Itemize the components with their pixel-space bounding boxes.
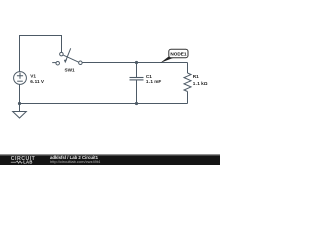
wire R1 bottom stub: [187, 92, 189, 104]
label V1 value: [30, 79, 45, 84]
wire switch common to right corner: [82, 62, 187, 64]
wire C1 bottom stub: [136, 80, 138, 104]
svg-text:C1: C1: [146, 74, 152, 79]
wire C1 top stub: [136, 63, 138, 78]
node flag NODE1 pointer: [160, 56, 173, 63]
footer title text: [50, 155, 99, 160]
svg-text:http://circuitlab.com/cwz49t4: http://circuitlab.com/cwz49t4: [50, 159, 101, 164]
label R1 value: [193, 81, 208, 86]
footer bar: [0, 154, 220, 165]
svg-text:R1: R1: [193, 74, 199, 79]
junction node dot C1 bottom: [135, 102, 138, 105]
svg-text:NODE1: NODE1: [170, 52, 187, 57]
label C1 value: [146, 79, 161, 84]
wire V1 bottom to ground node: [19, 84, 21, 103]
footer logo CIRCUIT: [11, 156, 36, 162]
wire bottom rail: [20, 103, 188, 105]
resistor R1 zigzag: [184, 73, 191, 92]
label R1: [193, 74, 199, 79]
node flag NODE1 box: [169, 49, 188, 58]
svg-text:V1: V1: [30, 74, 36, 79]
svg-text:1.1 kΩ: 1.1 kΩ: [193, 81, 208, 86]
label C1: [146, 74, 152, 79]
voltage source V1: [14, 72, 27, 85]
label V1: [30, 74, 36, 79]
capacitor C1 plates: [130, 78, 144, 80]
switch SW1: [52, 48, 82, 65]
svg-text:SW1: SW1: [65, 67, 76, 72]
footer logo LAB: [23, 160, 33, 165]
switch SW1 actuator arrowhead: [64, 59, 67, 63]
footer url text: [50, 159, 101, 164]
wire ground stub: [19, 104, 21, 112]
ground symbol: [13, 112, 27, 119]
junction node dot C1 top: [135, 61, 138, 64]
footer logo squiggle: [11, 161, 22, 163]
wire top loop V1 to switch: [20, 36, 62, 72]
svg-text:6.11 V: 6.11 V: [30, 79, 45, 84]
node flag NODE1 text: [170, 52, 187, 57]
wire R1 top stub: [187, 63, 189, 74]
junction node dot ground: [18, 102, 21, 105]
label SW1: [65, 67, 76, 72]
svg-text:LAB: LAB: [23, 160, 33, 165]
svg-text:1.1 mF: 1.1 mF: [146, 79, 161, 84]
